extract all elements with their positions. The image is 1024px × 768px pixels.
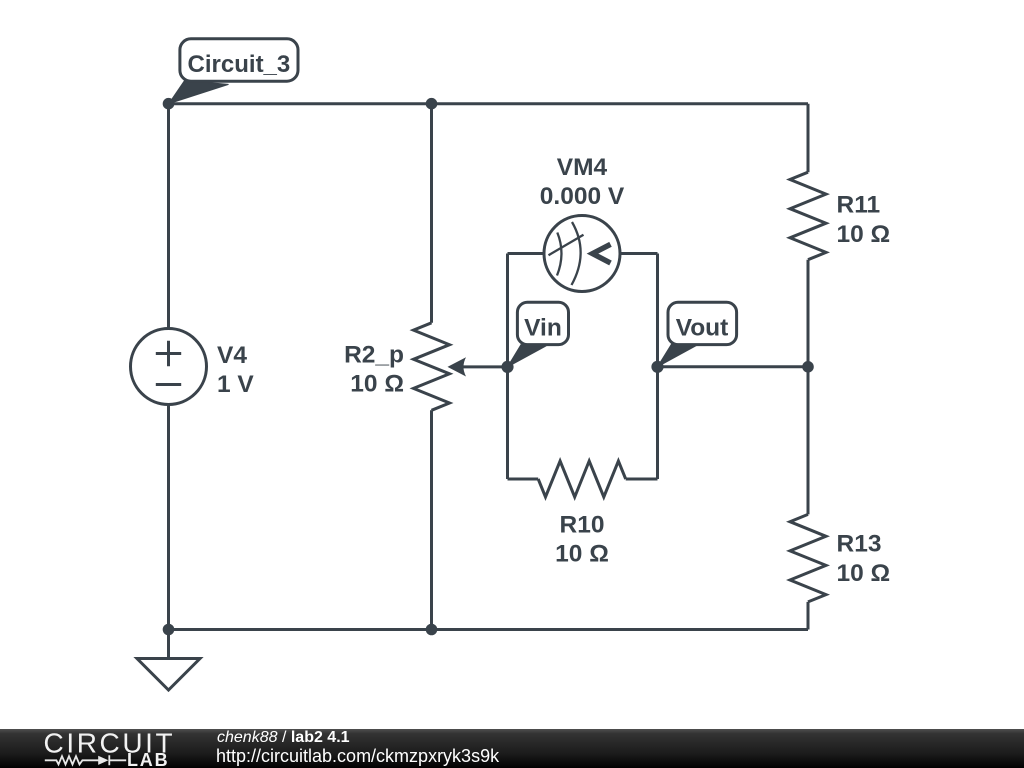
svg-text:R11: R11: [837, 192, 881, 219]
svg-text:10 Ω: 10 Ω: [837, 560, 891, 587]
footer bar: [0, 729, 1024, 768]
voltmeter scale arc outer: [572, 222, 581, 285]
wire right rail top (corner to R11): [807, 104, 810, 173]
ground stub wire: [167, 630, 170, 659]
wire right rail bottom (R13 to corner): [807, 602, 810, 630]
voltage source V4 circle: [131, 329, 207, 405]
V4 minus sign: [156, 383, 181, 386]
callout Vout box: [668, 302, 737, 344]
resistor R10 zigzag: [538, 461, 626, 497]
callout Vout tail: [658, 344, 696, 367]
wire left rail lower (V4 bottom to ground node): [167, 405, 170, 630]
wire R10 left lead: [508, 478, 539, 481]
ground symbol triangle: [137, 659, 200, 691]
resistor R11 zigzag: [790, 172, 826, 260]
node Vin junction: [501, 361, 513, 373]
svg-text:1 V: 1 V: [217, 371, 254, 398]
wire right rail R11-to-node: [807, 260, 810, 367]
wire right rail node-to-R13: [807, 367, 810, 515]
wire meter left lead horizontal: [508, 252, 545, 255]
footer line 2: url: [216, 747, 499, 765]
node Vout junction: [651, 361, 663, 373]
svg-text:10 Ω: 10 Ω: [350, 370, 404, 397]
CircuitLab logo diode triangle: [98, 756, 108, 765]
callout Vin box: [517, 302, 568, 344]
callout Circuit_3 box: [180, 39, 298, 81]
node top-middle: [426, 98, 438, 110]
wire Vout horizontal to right rail: [658, 365, 809, 368]
svg-text:R2_p: R2_p: [344, 342, 404, 369]
wire R2_p branch upper: [430, 104, 433, 323]
wire wiper horizontal: [459, 365, 508, 368]
wire bottom rail: [169, 628, 809, 631]
footer line 1: username / title: [217, 730, 350, 746]
svg-text:R10: R10: [560, 512, 605, 539]
voltmeter V glyph (rotated): [593, 244, 611, 263]
node bottom-middle: [426, 624, 438, 636]
svg-text:LAB: LAB: [127, 750, 169, 768]
voltmeter needle: [549, 235, 584, 255]
svg-text:VM4: VM4: [557, 154, 608, 181]
wire top rail: [169, 102, 809, 105]
wire R2_p branch lower: [430, 410, 433, 629]
svg-text:Circuit_3: Circuit_3: [188, 51, 291, 78]
svg-text:0.000 V: 0.000 V: [540, 183, 625, 210]
V4 plus sign: [156, 341, 181, 366]
CircuitLab logo mini schematic: [45, 755, 126, 765]
svg-text:V4: V4: [217, 342, 247, 369]
svg-text:10 Ω: 10 Ω: [837, 221, 891, 248]
callout Circuit_3 tail: [169, 81, 229, 104]
svg-text:R13: R13: [837, 531, 882, 558]
wire R10 right lead: [626, 478, 658, 481]
wire meter right lead horizontal: [620, 252, 658, 255]
wire left rail upper (node to V4 top): [167, 104, 170, 329]
node right rail: [802, 361, 814, 373]
potentiometer R2_p zigzag: [414, 323, 450, 411]
node top-left: [163, 98, 175, 110]
voltmeter VM4 circle: [544, 216, 620, 292]
svg-text:10 Ω: 10 Ω: [555, 540, 609, 567]
wire Vin vertical (meter left lead down to R10): [506, 254, 509, 480]
potentiometer wiper arrowhead: [448, 357, 467, 376]
svg-text:Vout: Vout: [676, 315, 729, 342]
node bottom-left: [163, 624, 175, 636]
resistor R13 zigzag: [790, 514, 826, 602]
callout Vin tail: [508, 345, 546, 367]
svg-text:Vin: Vin: [524, 314, 562, 341]
voltmeter scale arc inner: [557, 233, 561, 276]
wire Vout vertical (meter right lead down to R10): [656, 254, 659, 480]
